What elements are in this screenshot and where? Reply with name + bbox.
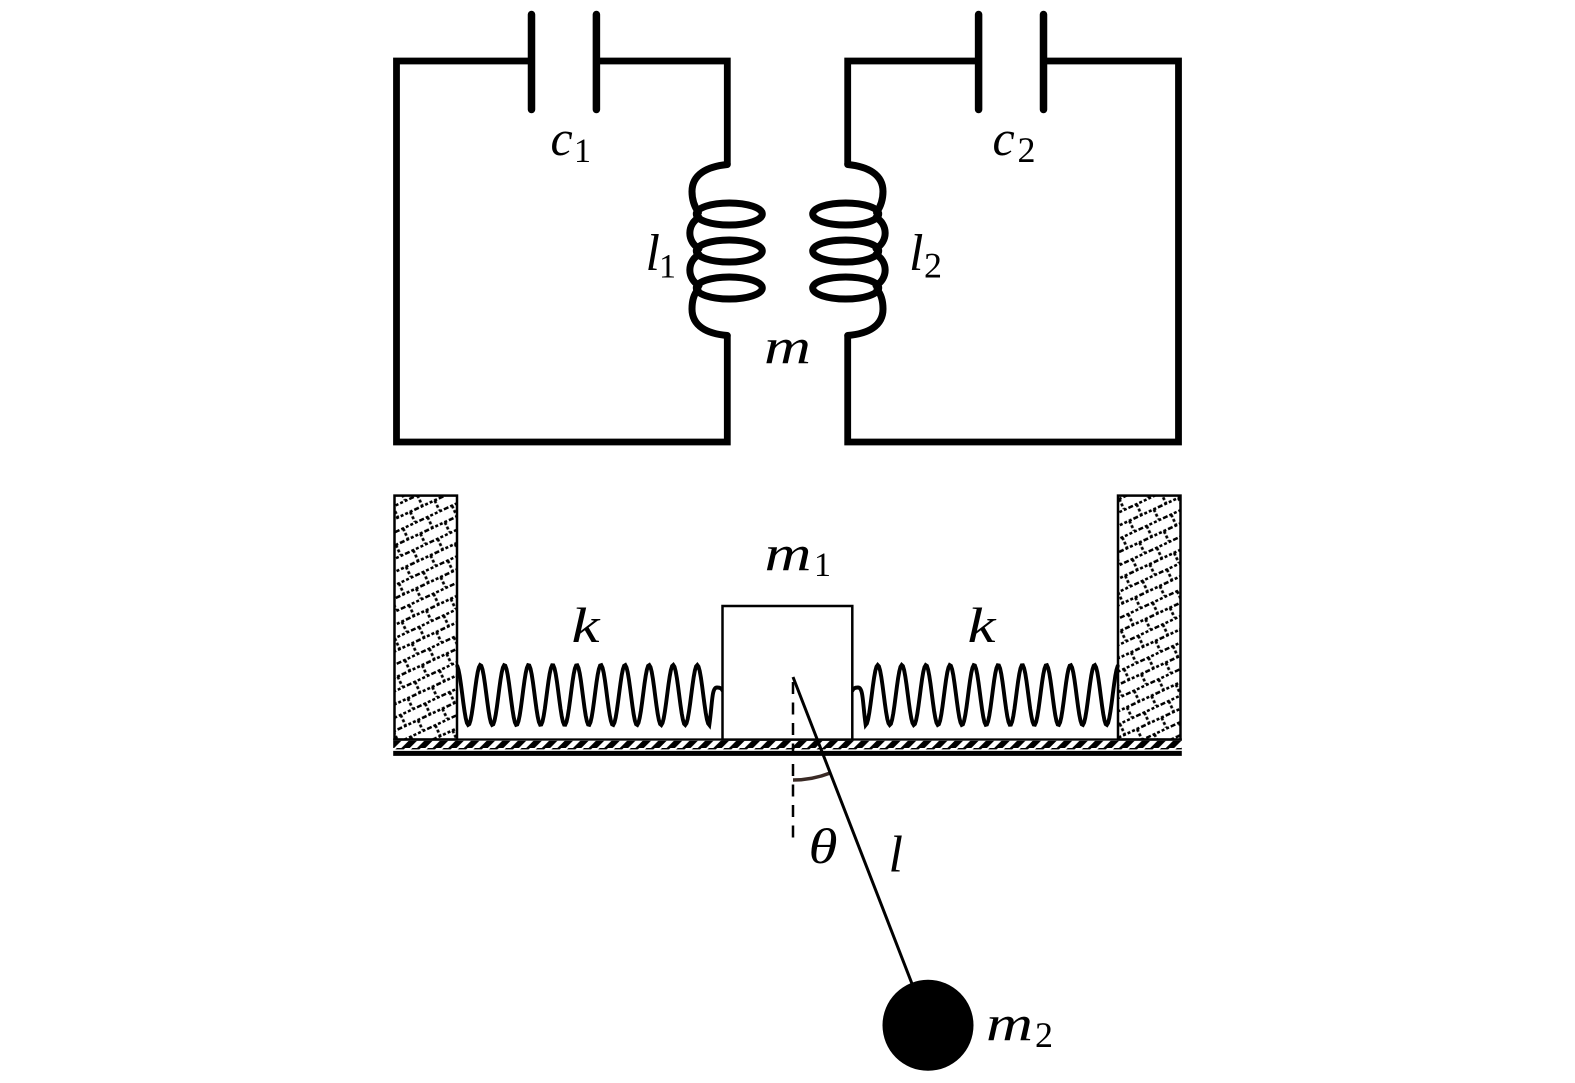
spring k right [853,665,1118,725]
wire: left loop top-right segment [596,61,727,165]
svg-text:m: m [765,525,812,581]
mass m2 bob [883,980,974,1071]
svg-text:l: l [909,225,923,282]
svg-text:m: m [764,318,811,374]
svg-text:m: m [986,995,1033,1051]
right wall [1118,496,1181,740]
svg-text:θ: θ [809,818,838,874]
spring k left [457,665,722,725]
mass m1 block [723,606,853,740]
capacitor c2 [979,15,1044,110]
svg-text:l: l [646,225,660,282]
wire: right loop top-left segment [848,61,979,165]
floor top line [393,738,1182,740]
capacitor c1 [532,15,597,110]
svg-text:c: c [993,110,1015,166]
wire: right LC loop outline [848,61,1179,442]
inductor l2 [813,165,885,336]
svg-text:l: l [889,827,903,884]
wire: left LC loop outline [397,61,728,442]
svg-text:c: c [551,110,573,166]
pendulum rod l [793,677,928,1025]
angle arc theta [793,773,830,780]
floor bottom line [393,751,1182,756]
svg-text:k: k [968,597,997,653]
floor hatch band [393,741,1182,750]
inductor l1 [690,165,762,336]
dashed vertical reference line [792,682,795,842]
svg-text:k: k [572,597,601,653]
left wall [395,496,458,740]
